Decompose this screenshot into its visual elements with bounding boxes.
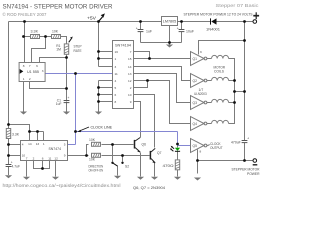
wire 74194 pin15 to Q1 bbox=[134, 58, 191, 60]
svg-text:Stepper 07 Basic: Stepper 07 Basic bbox=[216, 3, 260, 8]
wire switch S2 drop A bbox=[112, 145, 114, 162]
resistor 10K upper (direction) bbox=[92, 142, 101, 146]
regulator U4 LM7805 box bbox=[162, 17, 178, 26]
svg-text:11: 11 bbox=[115, 72, 118, 76]
svg-text:11: 11 bbox=[48, 156, 51, 160]
ground 7805 bbox=[166, 45, 173, 48]
wire Q7 emitter to gnd bbox=[154, 163, 156, 177]
svg-text:3.3K: 3.3K bbox=[31, 30, 39, 34]
capacitor C3 10uF plates bbox=[179, 29, 185, 31]
svg-text:10K: 10K bbox=[89, 157, 96, 161]
svg-text:CLOCK LINE: CLOCK LINE bbox=[91, 126, 113, 130]
wire 74194 lower pins vertical to gnd bbox=[98, 81, 100, 112]
svg-text:1: 1 bbox=[23, 77, 25, 81]
ground 555 pin1 bbox=[20, 112, 27, 115]
svg-text:Q3: Q3 bbox=[193, 101, 198, 105]
wire diode cathode to + terminal bbox=[217, 21, 253, 23]
IC U3 SN7474 box bbox=[21, 141, 68, 161]
wire Q1 output to coil1 bbox=[207, 58, 212, 60]
ground switch S2 bbox=[114, 176, 121, 179]
wire rail to 3.3K bbox=[25, 36, 31, 38]
wire left rail mid bbox=[8, 139, 10, 165]
svg-text:STEPPER MOTOR POWER 12 TO 24 V: STEPPER MOTOR POWER 12 TO 24 VOLTS bbox=[184, 13, 254, 17]
svg-text:Q5: Q5 bbox=[193, 144, 198, 148]
svg-text:+: + bbox=[247, 137, 249, 141]
svg-text:5: 5 bbox=[115, 86, 117, 90]
wire 470ohm to gnd bbox=[177, 170, 179, 177]
wire main bus lower bbox=[244, 143, 246, 161]
svg-text:S2: S2 bbox=[125, 164, 129, 168]
wire coil bus vertical bbox=[229, 59, 235, 124]
wire 74194 pin10 to Q7 collector bbox=[134, 95, 155, 148]
+5V supply arrow bbox=[99, 17, 103, 22]
inductor coil 1 bbox=[212, 55, 229, 58]
ground 7474 pin12 bbox=[52, 177, 59, 180]
wire 7805 output to diode bbox=[178, 21, 211, 23]
wire rail branch to 7474 top bbox=[9, 125, 30, 132]
potentiometer R1 1M body bbox=[64, 44, 68, 54]
wire 74194 pin4 stub bbox=[99, 80, 113, 82]
wire Q6 base bbox=[102, 144, 134, 146]
svg-text:10K: 10K bbox=[89, 138, 96, 142]
svg-text:9: 9 bbox=[200, 50, 202, 54]
wire 555 pin7 tap bbox=[32, 37, 46, 63]
wire 555 pin6 tap bbox=[40, 58, 67, 63]
svg-text:Q4: Q4 bbox=[193, 122, 198, 126]
transistor Q7 2N3904 bbox=[150, 148, 155, 163]
wire cap C2 top stub bbox=[140, 22, 142, 30]
svg-text:9: 9 bbox=[130, 100, 132, 104]
wire 10K to pot R1 bbox=[61, 37, 67, 44]
svg-text:1N4001: 1N4001 bbox=[206, 27, 220, 31]
svg-text:1: 1 bbox=[115, 57, 117, 61]
wire Q4 output to coil4 bbox=[207, 123, 212, 125]
wire left rail upper bbox=[8, 22, 10, 129]
wire 74194 pin12 to Q4 bbox=[134, 81, 191, 124]
555 left edge marker bbox=[20, 69, 24, 74]
svg-text:16: 16 bbox=[115, 50, 119, 54]
wire 7474 pin6 stub bbox=[42, 161, 44, 169]
wire coil3 to bus bbox=[229, 102, 235, 104]
svg-text:U1 555: U1 555 bbox=[27, 70, 39, 74]
wire switch pole to gnd bbox=[117, 166, 119, 176]
svg-text:13: 13 bbox=[128, 72, 132, 76]
wire Q5 uln gnd pin bbox=[197, 150, 199, 174]
svg-text:5: 5 bbox=[64, 143, 66, 147]
svg-text:4.7uF: 4.7uF bbox=[12, 165, 21, 169]
wire +5V drop to 74194 bbox=[98, 22, 100, 67]
wire main bus upper bbox=[244, 22, 246, 141]
svg-text:2: 2 bbox=[130, 86, 132, 90]
junction dots bbox=[23, 20, 26, 23]
capacitor C5 470uF plates bbox=[242, 140, 248, 142]
svg-text:6: 6 bbox=[42, 156, 44, 160]
svg-text:8: 8 bbox=[115, 100, 117, 104]
svg-text:RATE: RATE bbox=[74, 49, 82, 53]
555 pin labels bbox=[23, 64, 44, 81]
ground 74194 inputs bbox=[95, 112, 102, 115]
svg-text:10uF: 10uF bbox=[186, 30, 194, 34]
svg-text:3: 3 bbox=[42, 69, 44, 73]
wire branch up to 10K A bbox=[87, 145, 89, 156]
wire 3.3K to 10K bbox=[40, 36, 52, 38]
svg-text:12: 12 bbox=[128, 79, 132, 83]
wire 7474 pin10 row bbox=[9, 155, 21, 157]
terminal circle negative bbox=[253, 159, 257, 163]
wire 7805 gnd stem bbox=[169, 43, 171, 45]
wire left rail to gnd bbox=[8, 167, 10, 176]
svg-text:2: 2 bbox=[29, 77, 31, 81]
wire clock to Q5 input bbox=[178, 132, 191, 146]
wire cap C2 bottom stub bbox=[140, 32, 142, 43]
wire coil bus to main bus bbox=[235, 91, 245, 93]
wire 555 vcc drop bbox=[24, 22, 26, 63]
wire 555 pin2 tap bbox=[30, 82, 67, 89]
svg-text:13: 13 bbox=[36, 142, 40, 146]
wire 74194 pin2 join bbox=[134, 81, 148, 88]
ground 470ohm bbox=[174, 177, 181, 180]
svg-text:ULN2003: ULN2003 bbox=[194, 92, 207, 96]
wire Q3 output to coil3 bbox=[207, 102, 212, 104]
wire 74194 pin5 stub bbox=[99, 87, 113, 89]
svg-text:SN74194 - STEPPER MOTOR DRIVER: SN74194 - STEPPER MOTOR DRIVER bbox=[3, 4, 113, 11]
wire 7474 top pin bus bbox=[30, 131, 44, 133]
terminal circle positive bbox=[253, 20, 257, 24]
svg-text:OUTPUT: OUTPUT bbox=[210, 146, 223, 150]
7474 pin labels bbox=[22, 142, 66, 160]
wire ULN COM pin9 to bus bbox=[199, 41, 245, 55]
buffer Q2 bbox=[191, 74, 205, 88]
resistor 3.3K vertical in rail bbox=[6, 129, 10, 139]
svg-text:9: 9 bbox=[64, 154, 66, 158]
wire switch S2 drop B bbox=[122, 156, 124, 162]
svg-text:POWER: POWER bbox=[247, 172, 260, 176]
svg-text:8: 8 bbox=[23, 64, 25, 68]
wire 7474 pin13 stub bbox=[37, 132, 39, 141]
wire 7474 pin9 row bbox=[68, 155, 89, 157]
wire 74194 pin3 stub bbox=[99, 66, 113, 68]
svg-text:+5V: +5V bbox=[87, 16, 96, 21]
resistor 10K lower (direction) bbox=[92, 153, 101, 157]
buffer Q3 bbox=[191, 96, 205, 110]
ground C1 bbox=[63, 112, 70, 115]
inductor coil 4 bbox=[212, 120, 229, 123]
buffer Q4 bbox=[191, 117, 205, 131]
IC U1 555 box bbox=[19, 63, 45, 82]
svg-text:Q2: Q2 bbox=[193, 79, 198, 83]
svg-text:1uF: 1uF bbox=[146, 30, 152, 34]
wire Q7 base bbox=[102, 155, 150, 157]
svg-text:6: 6 bbox=[36, 64, 38, 68]
buffer Q1 1/7 ULN2003 bbox=[191, 52, 205, 66]
transistor Q6 2N3904 bbox=[135, 138, 141, 153]
svg-text:7: 7 bbox=[26, 156, 28, 160]
wire clock vertical drop bbox=[75, 74, 77, 145]
resistor 470 ohm vertical bbox=[175, 160, 179, 170]
wire Q5 output pigtail bbox=[207, 144, 210, 145]
inductor coil 2 bbox=[212, 77, 229, 80]
IC U2 SN74194 box bbox=[113, 41, 134, 109]
wire 555 pin1 to gnd bbox=[23, 82, 25, 112]
ground 7474 pin7 bbox=[23, 177, 30, 180]
svg-text:4: 4 bbox=[22, 143, 24, 147]
wire 74194 pin14 to Q2 bbox=[134, 67, 191, 81]
wire 74194 pin16 stub bbox=[99, 51, 113, 53]
svg-text:1M: 1M bbox=[56, 47, 61, 51]
resistor 10K horizontal (timer) bbox=[52, 35, 61, 39]
buffer Q5 clock output bbox=[191, 139, 205, 153]
svg-text:6: 6 bbox=[115, 93, 117, 97]
wire 555 pin3 to 74194 pin11 (clock) bbox=[46, 73, 113, 75]
minus terminal label bbox=[253, 164, 258, 166]
ground 4.7uF cap bbox=[5, 175, 12, 178]
svg-text:COILS: COILS bbox=[214, 70, 225, 74]
wire 7474 pin14 stub bbox=[29, 132, 31, 141]
svg-text:1: 1 bbox=[43, 142, 45, 146]
wire cap C3 top stub bbox=[181, 22, 183, 30]
wire C1 to gnd bbox=[66, 102, 68, 112]
svg-text:SN74194: SN74194 bbox=[115, 43, 131, 47]
capacitor C1 1uF plates bbox=[64, 100, 70, 102]
svg-text:4: 4 bbox=[115, 79, 117, 83]
switch S2 contact dots and pole bbox=[111, 162, 113, 164]
svg-text:Q7: Q7 bbox=[157, 151, 162, 155]
ground Q6 emitter bbox=[137, 177, 144, 180]
svg-text:10K: 10K bbox=[52, 30, 59, 34]
wire 7474 pin1 stub bbox=[43, 132, 45, 141]
svg-text:ON-OFF-ON: ON-OFF-ON bbox=[89, 168, 104, 172]
svg-text:7: 7 bbox=[130, 50, 132, 54]
wire Q2 output to coil2 bbox=[207, 80, 212, 82]
svg-text:+: + bbox=[68, 96, 70, 100]
svg-text:7: 7 bbox=[29, 64, 31, 68]
svg-text:Q6: Q6 bbox=[142, 143, 147, 147]
diode D1 1N4001 bbox=[211, 18, 216, 24]
svg-text:http://home.cogeco.ca/~rpaisle: http://home.cogeco.ca/~rpaisley4/Circuit… bbox=[3, 183, 121, 188]
wire +5V top rail bbox=[9, 21, 162, 23]
svg-text:SN7474: SN7474 bbox=[49, 147, 62, 151]
svg-text:470Ω: 470Ω bbox=[163, 164, 174, 168]
wire 74194 pin9 to Q6 collector bbox=[134, 102, 141, 138]
svg-text:3: 3 bbox=[115, 65, 117, 69]
svg-text:8: 8 bbox=[200, 150, 202, 154]
svg-text:3.3K: 3.3K bbox=[12, 133, 20, 137]
wire led anode stub bbox=[177, 144, 179, 148]
plus terminal label bbox=[253, 15, 259, 17]
svg-text:© ROD PAISLEY 2007: © ROD PAISLEY 2007 bbox=[3, 12, 48, 17]
LED emission arrows bbox=[170, 146, 174, 152]
svg-text:Q1: Q1 bbox=[193, 57, 198, 61]
wire 74194 pin1 stub bbox=[99, 58, 113, 60]
svg-text:Q6, Q7 = 2N3904: Q6, Q7 = 2N3904 bbox=[133, 186, 165, 190]
capacitor C4 4.7uF plates bbox=[6, 164, 12, 166]
svg-text:15: 15 bbox=[128, 57, 132, 61]
capacitor C2 1uF plates bbox=[138, 29, 144, 31]
wire 74194 pin8 stub bbox=[99, 101, 113, 103]
svg-text:2: 2 bbox=[33, 156, 35, 160]
LED D2 green indicator bbox=[175, 148, 180, 151]
wire Q6 emitter to gnd bbox=[140, 153, 142, 177]
svg-text:STEP: STEP bbox=[74, 44, 82, 48]
svg-text:STEPPER MOTOR: STEPPER MOTOR bbox=[232, 167, 260, 171]
wire coil2 to bus bbox=[229, 80, 235, 82]
wire 74194 pin6 stub bbox=[99, 94, 113, 96]
svg-text:12: 12 bbox=[54, 156, 58, 160]
svg-text:14: 14 bbox=[128, 65, 132, 69]
wire 7474 pin4 row bbox=[9, 144, 21, 146]
wire cap C3 bottom stub bbox=[181, 32, 183, 43]
wire clock into 7474 pin5 bbox=[68, 144, 76, 146]
wire bottom supply rail bbox=[198, 160, 253, 162]
ground Q5 uln pin8 bbox=[194, 178, 201, 181]
wire 7474 pins 2-11 loop bbox=[34, 161, 50, 169]
svg-text:+: + bbox=[11, 160, 13, 164]
clock line leader arrow bbox=[80, 127, 89, 131]
svg-text:1uF: 1uF bbox=[56, 102, 62, 106]
ground Q7 emitter bbox=[151, 177, 158, 180]
svg-text:470uF: 470uF bbox=[231, 141, 241, 145]
wire 7474 pin7 to gnd bbox=[26, 161, 28, 177]
svg-text:14: 14 bbox=[28, 142, 32, 146]
resistor 3.3K horizontal bbox=[31, 35, 40, 39]
svg-text:+: + bbox=[177, 27, 179, 31]
svg-text:10: 10 bbox=[128, 93, 132, 97]
wire 7805 gnd pin bbox=[169, 26, 171, 43]
wire 7474 pin12 to gnd bbox=[55, 161, 57, 177]
wire 74194 pin13 to Q3 bbox=[134, 74, 191, 103]
wire pot bottom lead bbox=[66, 55, 68, 101]
svg-text:+: + bbox=[136, 27, 138, 31]
wire caps bottom rail bbox=[141, 42, 182, 44]
wire led cathode to resistor bbox=[177, 152, 179, 160]
potentiometer R1 wiper arrow bbox=[69, 39, 71, 42]
wire clock line horizontal bbox=[76, 131, 178, 133]
svg-text:LM7805: LM7805 bbox=[163, 20, 177, 24]
inductor coil 3 bbox=[212, 99, 229, 102]
wire 74194 pin7 out bbox=[134, 52, 150, 59]
